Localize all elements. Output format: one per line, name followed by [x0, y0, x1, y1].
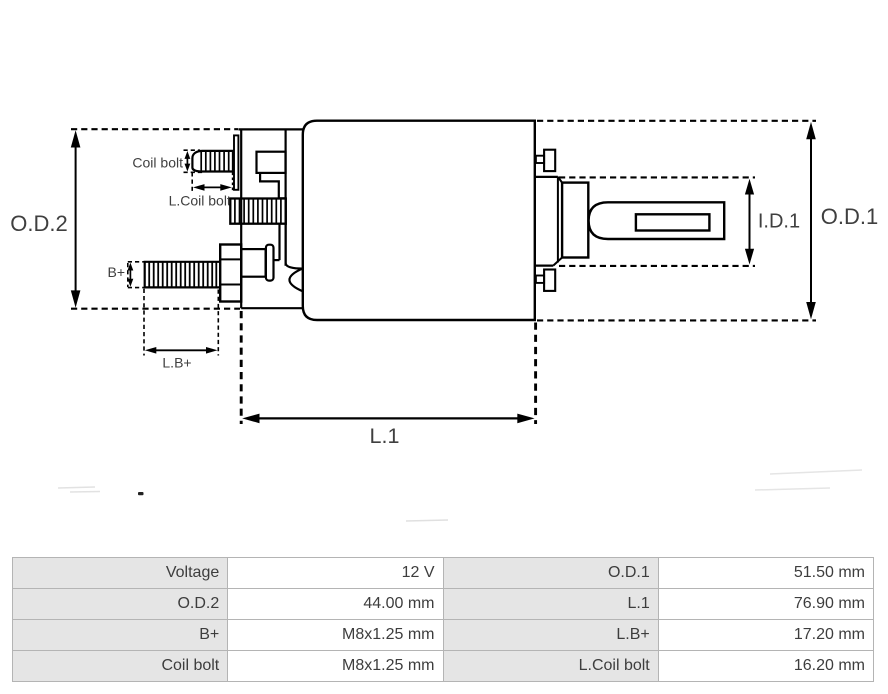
svg-text:L.B+: L.B+ — [162, 354, 191, 370]
B+ terminal bolt — [145, 262, 221, 288]
svg-text:Coil bolt: Coil bolt — [132, 154, 183, 170]
B+ washer — [266, 245, 274, 281]
cap internal step — [260, 173, 285, 199]
cap front plate left face — [240, 129, 242, 308]
cap internal notch rectangle — [257, 152, 286, 173]
dimension Coil bolt arrow — [185, 151, 191, 172]
dimension O.D.1 bottom dashed extension line — [537, 319, 816, 321]
dimension L.Coil bolt right dotted guide — [232, 173, 234, 192]
flange bottom chamfer — [553, 258, 562, 266]
dimension B+ arrow — [128, 263, 134, 287]
lower mounting screw small tab — [536, 276, 544, 283]
plunger boss — [562, 183, 588, 258]
rubber boot curve — [286, 264, 303, 269]
cap inner plate line — [285, 129, 287, 265]
plunger rod slot — [636, 214, 710, 230]
dimension O.D.2 bottom dashed extension line — [71, 308, 240, 310]
L.Coil bolt threaded terminal block — [230, 199, 285, 224]
svg-text:O.D.1: O.D.1 — [821, 204, 878, 229]
dimension B+ dashed guides — [128, 262, 145, 288]
svg-text:B+: B+ — [107, 264, 125, 280]
dimension L.Coil bolt left dashed guide — [191, 172, 193, 191]
dimension O.D.2 arrow — [71, 130, 81, 308]
dimension O.D.1 arrow — [806, 122, 816, 319]
dimension L.Coil bolt arrow — [193, 184, 232, 191]
specification table — [12, 557, 874, 682]
dimension I.D.1 arrow — [745, 179, 754, 265]
dimension L.1 right dashed guide — [534, 323, 537, 425]
plunger rod — [589, 202, 725, 239]
dimension Coil bolt dashed guides — [184, 150, 204, 172]
upper mounting screw head — [544, 150, 555, 171]
dimension L.1 left dashed guide — [240, 311, 243, 424]
end plate flange top edge — [535, 176, 558, 178]
svg-text:L.Coil bolt: L.Coil bolt — [169, 193, 231, 209]
boot bulge arc — [289, 268, 302, 291]
lower mounting screw head — [544, 270, 555, 291]
contact bar right of washer — [274, 224, 286, 265]
end plate flange bottom edge — [535, 265, 553, 267]
dimension I.D.1 top dashed extension line — [559, 176, 755, 178]
dimension O.D.2 top dashed extension line — [71, 128, 238, 130]
B+ contact stud — [241, 249, 265, 277]
faint watermark dash center — [406, 520, 448, 521]
faint watermark smudge right — [755, 470, 862, 490]
solenoid body (rounded can) — [303, 121, 535, 320]
flange top chamfer — [558, 177, 562, 183]
dimension L.B+ left dashed guide — [143, 289, 145, 356]
dimension L.B+ right dashed guide — [217, 290, 219, 356]
cap front plate bottom edge — [241, 307, 303, 309]
dimension L.1 arrow — [242, 414, 534, 424]
upper mounting screw small tab — [536, 156, 544, 163]
coil bolt terminal — [192, 151, 234, 172]
coil bolt upper flange — [234, 135, 238, 189]
svg-text:I.D.1: I.D.1 — [758, 210, 800, 232]
cap front plate top edge — [238, 128, 303, 130]
faint watermark smudge left — [58, 487, 100, 492]
svg-text:O.D.2: O.D.2 — [10, 211, 67, 236]
end plate flange right edge — [557, 178, 559, 263]
B+ hex nut — [220, 245, 241, 302]
dimension O.D.1 top dashed extension line — [537, 120, 816, 122]
dimension L.B+ arrow — [145, 347, 218, 354]
watermark dark dash — [138, 492, 144, 495]
svg-text:L.1: L.1 — [370, 424, 400, 448]
dimension I.D.1 bottom dashed extension line — [559, 265, 755, 267]
